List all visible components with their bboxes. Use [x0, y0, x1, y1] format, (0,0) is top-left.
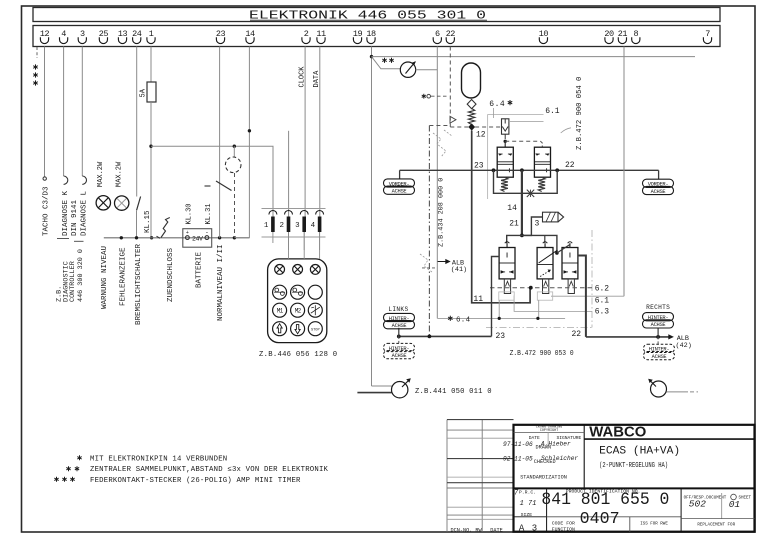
svg-text:Z.B.446 056 128 0: Z.B.446 056 128 0 [259, 351, 337, 359]
height sensor right [651, 381, 667, 397]
rear left rail [399, 335, 492, 337]
remote button axle 3 [308, 285, 322, 299]
svg-text:1 71: 1 71 [520, 500, 537, 508]
remote wire 4 [319, 232, 321, 259]
svg-text:Z.B.472 900 054 0: Z.B.472 900 054 0 [576, 77, 584, 150]
svg-text:DATE: DATE [490, 528, 502, 534]
svg-text:97-11-06: 97-11-06 [503, 441, 533, 448]
ALB scribble bottom [420, 254, 432, 272]
remote lamp 2 [293, 265, 303, 275]
R2 stem feed [544, 236, 546, 244]
wire pin1 upper [150, 47, 152, 83]
line 6.1 front [509, 120, 544, 122]
svg-text:446 300 320 0: 446 300 320 0 [77, 249, 85, 302]
valve R2 rear proportional [537, 248, 553, 279]
svg-text:A.Hieber: A.Hieber [540, 440, 571, 447]
svg-text:12: 12 [476, 131, 486, 140]
svg-text:CODE FOR: CODE FOR [552, 520, 575, 526]
check valve spring [468, 109, 474, 125]
junction pin14 keypad2 [248, 129, 251, 132]
niveau sensor circle [225, 157, 241, 173]
footnote 1 [79, 455, 81, 460]
svg-text:ACHSE: ACHSE [392, 323, 407, 329]
pilot dashed to valve B [505, 140, 540, 142]
svg-text:6.1: 6.1 [545, 107, 560, 116]
wire pin21 [623, 47, 625, 297]
keypad pin 2 [285, 211, 293, 215]
valve A stem [504, 141, 506, 147]
svg-text:KL.30: KL.30 [186, 203, 194, 224]
exhaust port R3 [568, 279, 574, 294]
lamp fehleranzeige [115, 196, 129, 210]
junction niveau bus [233, 236, 236, 239]
port casing R2 [537, 292, 552, 300]
svg-text:KL.31: KL.31 [205, 203, 213, 224]
ELEKTRONIK title box [33, 8, 720, 22]
svg-text:MIT ELEKTRONIKPIN 14 VERBUNDEN: MIT ELEKTRONIKPIN 14 VERBUNDEN [90, 455, 227, 463]
code for function [547, 516, 682, 518]
feedback R2 [538, 300, 540, 318]
size cell [514, 516, 547, 518]
svg-text:FUNCTION: FUNCTION [552, 526, 575, 532]
title block border [514, 425, 755, 532]
svg-text:A 3: A 3 [519, 524, 538, 534]
svg-text:HINTER-: HINTER- [648, 315, 669, 321]
pocket VORDER-ACHSE left [399, 170, 401, 179]
svg-text:11: 11 [473, 295, 483, 304]
exhaust port R2 [543, 279, 549, 294]
valve B spring [538, 177, 545, 191]
R3 supply diagonal [557, 245, 570, 254]
junction fehleranzeige [120, 236, 123, 239]
tacho terminal circle [43, 177, 46, 180]
remote lamp 1 [275, 265, 285, 275]
ALB(41) arrow [438, 261, 446, 263]
center-right divider [629, 517, 631, 532]
svg-text:ACHSE: ACHSE [392, 353, 407, 359]
test line Z.B.434 [436, 47, 438, 319]
svg-text:7: 7 [705, 29, 710, 39]
pocket HINTER-ACHSE left upper [398, 328, 400, 337]
battery box [183, 229, 212, 248]
check valve diamond [467, 100, 476, 109]
wire keypad1 feed [151, 146, 273, 216]
svg-text:STOP: STOP [311, 329, 320, 333]
svg-text:VORDER-: VORDER- [648, 182, 669, 188]
junction pin23 bus [218, 236, 221, 239]
wire pin1 lower [150, 102, 152, 238]
svg-text:841 801 655 0: 841 801 655 0 [541, 490, 669, 510]
svg-text:92-11-05: 92-11-05 [503, 455, 533, 462]
junction rear supply [520, 234, 524, 238]
rear supply pipes [507, 235, 557, 253]
footnote 2 [68, 466, 70, 471]
junction ALB rail [428, 335, 432, 339]
top rail [372, 56, 696, 58]
leader Z.B.472 front [561, 128, 571, 133]
battery terminal KL.30 [186, 236, 190, 240]
revision table verticals [446, 420, 448, 532]
svg-text:1: 1 [149, 29, 154, 39]
svg-text:2: 2 [304, 29, 309, 39]
switch KL.15 blade [137, 197, 141, 211]
remote lamp 3 [310, 265, 320, 275]
svg-text:CONTROLLER: CONTROLLER [69, 261, 77, 302]
svg-text:Z.B.472 900 053 0: Z.B.472 900 053 0 [510, 350, 574, 358]
remote wire 3 [303, 232, 305, 259]
label *6.4 [449, 316, 451, 321]
svg-text:5A: 5A [140, 88, 148, 97]
junction R2 right [555, 251, 559, 255]
exhaust port R1 [504, 279, 510, 294]
svg-text:TACHO C3/D3: TACHO C3/D3 [43, 186, 51, 236]
fuse 5A [147, 82, 156, 102]
test line 6.4 horizontal [437, 317, 565, 319]
svg-text:ACHSE: ACHSE [392, 189, 407, 195]
svg-text:Z.B.434 208 000 0: Z.B.434 208 000 0 [437, 178, 445, 247]
svg-text:WARNUNG NIVEAU: WARNUNG NIVEAU [101, 246, 109, 309]
wire pin14 [234, 47, 249, 238]
junction rail B-right [555, 168, 559, 172]
svg-text:ACHSE: ACHSE [651, 322, 666, 328]
svg-text:HINTER-: HINTER- [649, 347, 670, 353]
keypad strip top line [262, 208, 326, 210]
svg-text:DCN-NO. RW: DCN-NO. RW [451, 528, 483, 534]
rear right rail [586, 336, 669, 338]
svg-text:STANDARDIZATION: STANDARDIZATION [520, 474, 567, 480]
wire pin24 [136, 47, 138, 197]
pipe R3 to rail 22 [578, 256, 586, 337]
pilot line dashed 12 [450, 126, 468, 128]
remote button up [273, 322, 287, 336]
keypad pin 1 [269, 211, 277, 215]
line 6.3 rear [514, 296, 592, 312]
height sensor left [392, 382, 408, 398]
svg-text:4: 4 [311, 222, 316, 230]
svg-text:NORMALNIVEAU I/II: NORMALNIVEAU I/II [217, 244, 225, 321]
svg-text:BREMSLICHTSCHALTER: BREMSLICHTSCHALTER [135, 243, 143, 325]
right divider small [721, 493, 723, 519]
svg-text:ACHSE: ACHSE [652, 354, 667, 360]
svg-text:0407: 0407 [580, 509, 620, 528]
gauge branch [372, 57, 401, 69]
svg-text:VORDER-: VORDER- [389, 181, 410, 187]
wire pin4 diagnose K [63, 47, 65, 177]
svg-text:DATA: DATA [313, 70, 321, 88]
hook end K [64, 176, 68, 184]
svg-text:6: 6 [435, 29, 440, 39]
ALB(42) arrow [668, 334, 674, 339]
junction pocket right rail [656, 335, 660, 339]
svg-text:WABCO: WABCO [589, 425, 646, 441]
remote control body [268, 259, 327, 343]
svg-text:ZENTRALER SAMMELPUNKT,ABSTAND: ZENTRALER SAMMELPUNKT,ABSTAND ≤3x VON DE… [90, 466, 329, 474]
svg-text:FEDERKONTAKT-STECKER (26-POLIG: FEDERKONTAKT-STECKER (26-POLIG) AMP MINI… [90, 477, 301, 485]
valve R3 rear [562, 248, 578, 279]
junction 6.4 R2 [536, 317, 539, 320]
feedback R1 [498, 300, 500, 318]
svg-text:01: 01 [729, 499, 740, 510]
svg-text:DIAGNOSE K: DIAGNOSE K [62, 190, 70, 236]
svg-text:Schleicher: Schleicher [541, 455, 578, 462]
svg-text:2: 2 [279, 222, 284, 230]
junction bremslicht [135, 236, 138, 239]
junction pilot [504, 140, 507, 143]
junction supply [468, 123, 475, 130]
svg-text:BATTERIE: BATTERIE [196, 251, 204, 288]
valve B front axle [534, 147, 550, 177]
* marker valve [423, 94, 425, 99]
bracket ticks [57, 238, 69, 240]
svg-text:-: - [205, 229, 209, 236]
remote button axle 2 [291, 285, 305, 299]
svg-text:(41): (41) [451, 266, 467, 274]
title block divider vertical [583, 425, 585, 489]
pocket HINTER-ACHSE right lower [657, 337, 659, 344]
exhaust triangle pin22 [450, 116, 456, 123]
air reservoir [462, 63, 481, 98]
right cell divider [680, 488, 682, 531]
keypad pin 2 tail [288, 232, 290, 250]
26-pin connector note stub [36, 47, 38, 58]
wire pin12 to tacho [44, 47, 46, 177]
line 6.1 rear [551, 295, 624, 297]
svg-text:DIAGNOSE L: DIAGNOSE L [81, 190, 89, 236]
junction rail center [520, 168, 524, 172]
svg-text:+: + [186, 230, 189, 236]
bus wire [104, 237, 250, 239]
remote button down [291, 322, 305, 336]
svg-text:6.4: 6.4 [489, 100, 505, 109]
svg-text:P.R.C.: P.R.C. [519, 489, 536, 495]
valve R1 rear [499, 248, 515, 279]
svg-text:HINTER-: HINTER- [389, 346, 410, 352]
svg-text:21: 21 [509, 220, 519, 229]
svg-text:22: 22 [565, 161, 575, 170]
port casing R1 [499, 292, 514, 300]
pocket HINTER-ACHSE right upper [657, 329, 659, 337]
switch zuendschloss [161, 218, 170, 238]
hook end L [82, 176, 86, 184]
remote button M2 [291, 303, 305, 317]
footnote 3 [56, 477, 58, 482]
date signature header [514, 432, 585, 434]
gauge output line [416, 69, 438, 71]
svg-text:HINTER-: HINTER- [389, 316, 410, 322]
supply pipe 11 down [472, 131, 530, 303]
PRC divider [546, 488, 548, 531]
battery terminal KL.31 [205, 236, 209, 240]
svg-text:SIZE: SIZE [521, 512, 533, 518]
junction rail A-left [492, 168, 496, 172]
svg-text:14: 14 [507, 204, 517, 213]
svg-text:1: 1 [264, 222, 269, 230]
underline under title [250, 19, 487, 21]
revision table rows [447, 419, 514, 421]
valve A spring [501, 177, 508, 191]
junction pocket left rail [397, 335, 401, 339]
svg-text:MAX.2W: MAX.2W [97, 161, 105, 187]
svg-text:LINKS: LINKS [388, 306, 408, 313]
keypad pin 4 [316, 211, 324, 215]
niveau switch dashed wire [234, 173, 236, 237]
svg-text:8: 8 [633, 29, 638, 39]
junction pin1/bus [150, 236, 153, 239]
ALB scribble top [433, 133, 446, 157]
pocket VORDER-ACHSE right [658, 170, 660, 179]
wire switch to bus [136, 210, 138, 238]
unit box Z.B.472 900 054 0 [487, 114, 489, 199]
svg-text:ISS FOR RWE: ISS FOR RWE [640, 523, 668, 527]
wire pin11 DATA [319, 47, 321, 217]
remote wire 2 [288, 232, 290, 259]
pressure gauge [400, 62, 415, 77]
svg-text:22: 22 [572, 330, 582, 339]
svg-text:ECAS (HA+VA): ECAS (HA+VA) [599, 446, 680, 458]
wire pin23 [219, 47, 221, 238]
svg-text:23: 23 [496, 332, 506, 341]
wire pin18 elbow [372, 385, 393, 387]
pocket HINTER-ACHSE left lower [398, 336, 400, 343]
valve 6.4 outlet [504, 134, 506, 139]
svg-text:502: 502 [689, 499, 706, 510]
silencer 3 [543, 212, 559, 222]
keypad pin 1 tail [272, 232, 274, 243]
ALB top dash [429, 125, 448, 127]
svg-text:3: 3 [295, 222, 300, 230]
svg-text:FEHLERANZEIGE: FEHLERANZEIGE [119, 247, 127, 306]
svg-text:24V: 24V [192, 235, 203, 242]
svg-text:4: 4 [61, 29, 66, 39]
pipe rail to rear [521, 170, 523, 235]
svg-text:6.1: 6.1 [595, 297, 610, 306]
niveau sensor link [233, 146, 235, 157]
unit box Z.B.472 900 053 0 [486, 326, 592, 328]
connector box [33, 26, 720, 47]
lamp warning niveau [96, 196, 110, 210]
remote button level [308, 303, 322, 317]
svg-text:RECHTS: RECHTS [646, 304, 670, 311]
exhaust pipe [522, 217, 543, 235]
remote button stop [308, 322, 322, 336]
logo underline [584, 438, 754, 440]
junction pin1/keypad line [149, 145, 152, 148]
remote button axle 1 [273, 285, 287, 299]
svg-text:ZUENDSCHLOSS: ZUENDSCHLOSS [167, 247, 175, 302]
junction 6.4 R1 [498, 317, 501, 320]
svg-text:23: 23 [474, 162, 484, 171]
pilot dashed rear 6.2 [490, 287, 592, 289]
svg-text:REPLACEMENT FOR: REPLACEMENT FOR [697, 524, 735, 528]
ALB pilot dash-dot [428, 126, 430, 335]
valve 6.4 body [502, 119, 509, 134]
remote button M1 [273, 303, 287, 317]
replacement line [681, 518, 754, 520]
svg-text:Z.B.441 050 011 0: Z.B.441 050 011 0 [415, 388, 492, 396]
wire pin3 diagnose L [81, 47, 83, 177]
svg-text:CLOCK: CLOCK [299, 66, 307, 88]
svg-text:SHEET: SHEET [739, 497, 752, 501]
title block divider horizontal thick [514, 487, 755, 489]
keypad strip bottom line [262, 236, 326, 238]
svg-text:DIN 9141: DIN 9141 [71, 199, 79, 236]
bypass loop [494, 170, 558, 193]
switch normalniveau [216, 181, 232, 191]
pipe R1 to rail 23 [492, 257, 500, 337]
svg-text:(42): (42) [676, 342, 692, 350]
valve A front axle [497, 147, 513, 177]
svg-text:(2-PUNKT-REGELUNG HA): (2-PUNKT-REGELUNG HA) [599, 462, 668, 470]
keypad pin 3 tail [303, 232, 305, 250]
svg-text:3: 3 [535, 220, 540, 229]
svg-text:6.4: 6.4 [456, 316, 471, 324]
wire keypad2 feed [288, 131, 290, 217]
leader 6.4 [493, 108, 495, 118]
throttle valve [526, 192, 534, 194]
junction pin18 rail [370, 55, 373, 58]
svg-text:3: 3 [80, 29, 85, 39]
junction niveau feed [233, 145, 236, 148]
wire pin22 dashed [449, 47, 451, 128]
svg-text:6.3: 6.3 [595, 308, 610, 317]
keypad pin 4 tail [319, 232, 321, 250]
keypad pin 3 [300, 211, 308, 215]
wire pin2 CLOCK [304, 47, 306, 217]
wire pin18 [371, 47, 373, 387]
sensor link right [667, 391, 689, 393]
front rail [400, 169, 659, 171]
svg-text:ACHSE: ACHSE [651, 189, 666, 195]
junction pilot rear [529, 286, 533, 290]
svg-text:MAX.2W: MAX.2W [116, 161, 124, 187]
sensor link left [357, 392, 391, 394]
svg-text:6.2: 6.2 [595, 285, 610, 294]
